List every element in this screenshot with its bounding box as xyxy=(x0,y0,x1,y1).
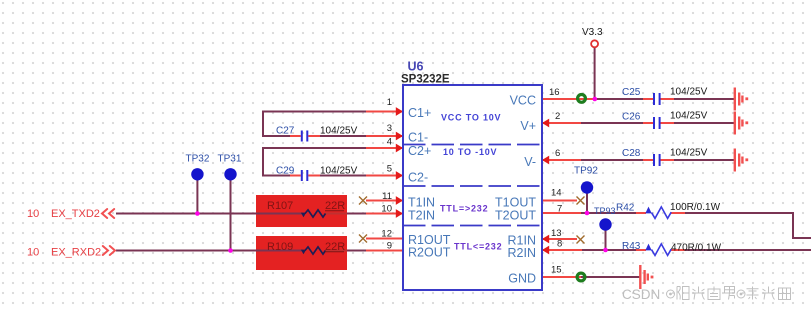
svg-text:EX_RXD2: EX_RXD2 xyxy=(51,247,101,259)
svg-text:TTL=>232: TTL=>232 xyxy=(440,204,488,214)
svg-text:TP32: TP32 xyxy=(186,154,210,165)
svg-text:R42: R42 xyxy=(616,203,635,214)
svg-text:TP92: TP92 xyxy=(574,166,598,177)
svg-text:R109: R109 xyxy=(267,241,293,253)
svg-text:R2IN: R2IN xyxy=(508,246,536,260)
svg-text:104/25V: 104/25V xyxy=(670,111,708,122)
svg-text:GND: GND xyxy=(508,272,536,286)
svg-text:TP31: TP31 xyxy=(218,154,242,165)
svg-text:104/25V: 104/25V xyxy=(670,148,708,159)
svg-text:1: 1 xyxy=(387,97,392,108)
svg-text:T2IN: T2IN xyxy=(408,209,435,223)
svg-text:3: 3 xyxy=(387,123,392,134)
svg-text:T2OUT: T2OUT xyxy=(495,209,536,223)
svg-text:TTL<=232: TTL<=232 xyxy=(454,242,502,252)
svg-text:10: 10 xyxy=(381,204,392,215)
svg-text:C1+: C1+ xyxy=(408,106,431,120)
svg-text:C29: C29 xyxy=(276,166,295,177)
svg-text:12: 12 xyxy=(381,229,392,240)
svg-text:7: 7 xyxy=(557,204,562,215)
svg-text:SP3232E: SP3232E xyxy=(401,73,450,85)
svg-text:15: 15 xyxy=(551,265,562,276)
svg-text:C26: C26 xyxy=(622,112,641,123)
svg-text:10: 10 xyxy=(27,247,39,259)
svg-text:C28: C28 xyxy=(622,148,641,159)
svg-text:14: 14 xyxy=(551,188,562,199)
svg-text:R43: R43 xyxy=(622,241,641,252)
svg-text:8: 8 xyxy=(557,239,562,250)
svg-text:104/25V: 104/25V xyxy=(670,87,708,98)
svg-text:104/25V: 104/25V xyxy=(320,166,358,177)
svg-text:4: 4 xyxy=(387,137,392,148)
svg-text:10: 10 xyxy=(27,208,39,220)
svg-text:100R/0.1W: 100R/0.1W xyxy=(670,202,721,213)
svg-text:13: 13 xyxy=(551,228,562,239)
svg-text:2: 2 xyxy=(555,111,560,122)
svg-text:R107: R107 xyxy=(267,200,293,212)
svg-text:VCC: VCC xyxy=(510,93,536,107)
svg-text:V-: V- xyxy=(524,155,536,169)
svg-text:470R/0.1W: 470R/0.1W xyxy=(671,243,722,254)
svg-text:6: 6 xyxy=(555,148,560,159)
svg-text:T1OUT: T1OUT xyxy=(495,196,536,210)
svg-text:C27: C27 xyxy=(276,126,295,137)
svg-text:V3.3: V3.3 xyxy=(582,27,603,38)
svg-text:16: 16 xyxy=(549,87,560,98)
svg-text:C2+: C2+ xyxy=(408,144,431,158)
svg-text:22R: 22R xyxy=(325,241,345,253)
svg-text:11: 11 xyxy=(382,191,392,202)
svg-text:5: 5 xyxy=(387,164,392,175)
svg-text:10 TO -10V: 10 TO -10V xyxy=(443,147,497,157)
svg-text:V+: V+ xyxy=(520,119,536,133)
svg-text:C25: C25 xyxy=(622,87,641,98)
svg-text:22R: 22R xyxy=(325,200,345,212)
svg-text:R2OUT: R2OUT xyxy=(408,246,451,260)
svg-text:9: 9 xyxy=(387,241,392,252)
svg-text:VCC TO 10V: VCC TO 10V xyxy=(441,113,501,123)
svg-text:C1-: C1- xyxy=(408,131,428,145)
svg-text:U6: U6 xyxy=(408,60,424,74)
svg-text:C2-: C2- xyxy=(408,171,428,185)
svg-text:TP93: TP93 xyxy=(594,206,616,216)
svg-text:CSDN: CSDN xyxy=(622,287,660,302)
svg-text:EX_TXD2: EX_TXD2 xyxy=(51,208,100,220)
svg-text:104/25V: 104/25V xyxy=(320,126,358,137)
svg-text:T1IN: T1IN xyxy=(408,196,435,210)
